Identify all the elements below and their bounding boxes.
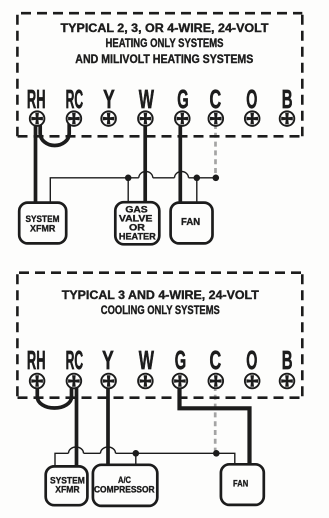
svg-text:C: C [210, 347, 222, 375]
svg-text:Y: Y [102, 347, 114, 375]
svg-text:G: G [177, 86, 188, 114]
screw terminal O, top row [245, 111, 260, 126]
screw terminal G, top row [175, 111, 190, 126]
svg-text:HEATING ONLY SYSTEMS: HEATING ONLY SYSTEMS [106, 36, 224, 50]
screw terminal C, top row [209, 111, 224, 126]
junction dot at a/c tap, bottom [133, 450, 140, 457]
thin common wire run, top: xfmr to gas valve, fan, C node [50, 172, 216, 206]
svg-text:XFMR: XFMR [55, 483, 80, 494]
screw terminal Y, bottom row [101, 374, 116, 389]
svg-text:Y: Y [103, 86, 115, 114]
screw terminal RC, top row [67, 111, 82, 126]
terminal screws RH RC Y W G C O B, top row [30, 111, 295, 126]
jumper wire RH-RC (U shape), bottom [37, 381, 71, 408]
drop into fan [196, 178, 198, 205]
svg-text:TYPICAL 3 AND 4-WIRE, 24-VOLT: TYPICAL 3 AND 4-WIRE, 24-VOLT [62, 288, 260, 302]
svg-text:RC: RC [66, 347, 84, 375]
svg-text:W: W [139, 86, 155, 114]
junction dot at fan tap, top [194, 175, 201, 182]
box FAN, bottom [221, 464, 264, 505]
thermostat dashed border, top box [17, 13, 302, 136]
title, bottom box [62, 288, 260, 317]
net C gray dashed drop, bottom diagram [214, 386, 217, 451]
screw terminal RC, bottom row [67, 374, 82, 389]
box A/C COMPRESSOR, bottom [93, 465, 157, 506]
screw terminal C, bottom row [209, 374, 224, 389]
box SYSTEM XFMR, bottom [46, 466, 88, 505]
wire G to fan (thick bent feed), bottom [180, 381, 250, 467]
svg-text:TYPICAL 2, 3, OR 4-WIRE, 24-V: TYPICAL 2, 3, OR 4-WIRE, 24-VOLT [61, 21, 270, 35]
svg-text:O: O [246, 86, 257, 114]
wire RH to system xfmr (thick feed), top [34, 119, 38, 205]
wire hop over RC feed [69, 447, 84, 453]
wire Y to a/c compressor (thick feed), bottom [106, 381, 110, 469]
junction dot at C net end, top [213, 175, 220, 182]
screw terminal RH, top row [30, 111, 45, 126]
svg-text:C: C [210, 86, 222, 114]
jumper wire RH-RC (U shape), top [40, 119, 69, 146]
wire RC to system xfmr (thick feed), bottom [75, 381, 79, 469]
svg-text:FAN: FAN [181, 217, 200, 228]
svg-text:B: B [282, 347, 293, 375]
screw terminal B, top row [280, 111, 295, 126]
junction dot at C net end, bottom [213, 450, 220, 457]
wire G to fan (thick feed), top [178, 119, 182, 205]
screw terminal B, bottom row [280, 374, 295, 389]
screw terminal O, bottom row [245, 374, 260, 389]
drop into a/c compressor [135, 453, 137, 467]
svg-text:G: G [175, 347, 186, 375]
thin common wire run, bottom: xfmr to a/c, C node, fan [55, 447, 235, 469]
title, top box [61, 21, 270, 66]
svg-text:XFMR: XFMR [30, 223, 56, 234]
svg-text:COOLING ONLY SYSTEMS: COOLING ONLY SYSTEMS [101, 303, 220, 317]
svg-text:COMPRESSOR: COMPRESSOR [94, 483, 155, 494]
svg-text:FAN: FAN [233, 478, 248, 489]
wire hop over W feed [139, 172, 153, 178]
wire hop over Y feed [101, 447, 116, 453]
svg-text:O: O [246, 347, 257, 375]
drop into gas valve [127, 178, 129, 205]
wire hop over G feed [175, 172, 189, 178]
terminal screws RH RC Y W G C O B, bottom row [30, 374, 295, 389]
svg-text:B: B [282, 86, 293, 114]
svg-text:W: W [139, 347, 155, 375]
junction dot at gas valve tap, top [125, 175, 132, 182]
svg-text:AND MILIVOLT HEATING SYSTEMS: AND MILIVOLT HEATING SYSTEMS [75, 52, 253, 66]
thermostat dashed border, bottom box [17, 273, 302, 398]
box FAN, top [171, 203, 213, 244]
box GAS VALVE OR HEATER, top [115, 202, 159, 244]
wire W to gas valve (thick feed), top [143, 119, 147, 205]
screw terminal W, bottom row [138, 374, 153, 389]
screw terminal Y, top row [101, 111, 116, 126]
svg-text:RC: RC [66, 86, 84, 114]
net C (unused common) gray dashed drop, top diagram [214, 124, 217, 176]
screw terminal RH, bottom row [30, 374, 45, 389]
screw terminal G, bottom row [173, 374, 188, 389]
box SYSTEM XFMR, top [19, 203, 66, 244]
screw terminal W, top row [138, 111, 153, 126]
svg-text:RH: RH [27, 347, 46, 375]
svg-text:HEATER: HEATER [119, 231, 157, 241]
terminal labels, top box [27, 86, 293, 114]
terminal labels, bottom box [27, 347, 293, 375]
svg-text:RH: RH [27, 86, 46, 114]
